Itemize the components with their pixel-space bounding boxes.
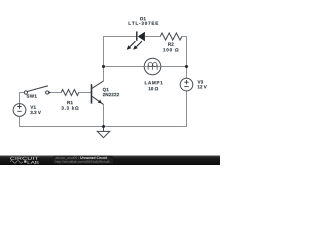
transistor Q1 emitter lead xyxy=(92,96,104,104)
LED D1 emission arrow 1 xyxy=(127,41,136,50)
label LAMP1 name xyxy=(145,81,163,84)
wire through lamp interior xyxy=(144,66,161,68)
switch SW1 right contact xyxy=(46,91,49,94)
wire V1 top to switch xyxy=(20,93,25,104)
footer line 1 device name xyxy=(56,156,79,159)
wire top rail to LED xyxy=(103,36,136,38)
voltage source V1 circle xyxy=(13,104,26,117)
wire R2 to right corner xyxy=(182,36,187,38)
LED D1 emission arrow 2 xyxy=(133,41,142,50)
wire V1 bottom stem xyxy=(19,116,21,126)
lamp LAMP1 circle xyxy=(144,58,161,75)
junction dot emitter/bottom rail xyxy=(102,125,105,128)
wire R1 to Q1 base xyxy=(79,92,91,94)
footer logo CIRCUIT xyxy=(10,157,38,160)
label V3 value 12 V xyxy=(198,85,207,88)
V3 minus sign xyxy=(184,86,188,88)
footer text panel xyxy=(53,156,113,164)
transistor Q1 emitter arrow xyxy=(98,100,102,104)
label R1 value 3.3 kOhm xyxy=(61,106,78,109)
switch SW1 left contact xyxy=(24,91,27,94)
label D1 value LTL-307EE xyxy=(129,22,159,25)
resistor R2 zigzag xyxy=(160,33,182,40)
LED D1 triangle xyxy=(138,32,145,41)
label R2 name xyxy=(168,43,173,46)
label SW1 xyxy=(27,94,37,97)
label V1 value 3.3 V xyxy=(30,111,40,114)
label R1 name xyxy=(67,101,73,104)
transistor Q1 collector lead xyxy=(92,81,104,89)
wire lamp row left xyxy=(103,66,144,68)
junction dot collector/lamp row xyxy=(102,65,105,68)
wire switch to R1 xyxy=(49,92,61,94)
wire Q1 emitter vertical xyxy=(103,104,105,126)
wire right vertical to V3 xyxy=(186,36,188,78)
label Q1 name xyxy=(103,88,109,92)
wire V3 bottom stem xyxy=(186,91,188,127)
wire LED to R2 xyxy=(145,36,160,38)
footer line 2 url xyxy=(56,160,110,163)
label R2 value 100 Ohm xyxy=(163,48,178,51)
label V3 name xyxy=(198,80,204,83)
ground symbol xyxy=(97,127,109,138)
footer logo square bullet xyxy=(24,160,26,162)
lamp LAMP1 filament glyph xyxy=(148,63,157,70)
label V1 name xyxy=(30,106,36,109)
label D1 name xyxy=(140,17,146,20)
switch SW1 lever xyxy=(27,86,48,92)
wire lamp row right xyxy=(161,66,187,68)
transistor Q1 base bar xyxy=(91,84,93,103)
footer bar xyxy=(0,156,220,166)
footer line 1 circuit title xyxy=(80,156,107,158)
resistor R1 zigzag xyxy=(61,90,79,96)
V1 plus sign xyxy=(17,104,21,108)
footer logo wave xyxy=(10,161,23,164)
label LAMP1 value 10 Ohm xyxy=(149,87,159,90)
wire Q1 collector vertical xyxy=(103,36,105,81)
voltage source V3 circle xyxy=(180,78,193,91)
wire bottom rail xyxy=(19,126,187,128)
footer logo LAB xyxy=(28,161,39,164)
V3 plus sign xyxy=(184,80,188,84)
label Q1 value 2N2222 xyxy=(103,93,119,96)
V1 minus sign xyxy=(17,110,21,112)
junction dot V3/lamp row xyxy=(185,65,188,68)
node terminal square at switch output xyxy=(49,92,51,94)
LED D1 cathode bar xyxy=(136,31,137,40)
